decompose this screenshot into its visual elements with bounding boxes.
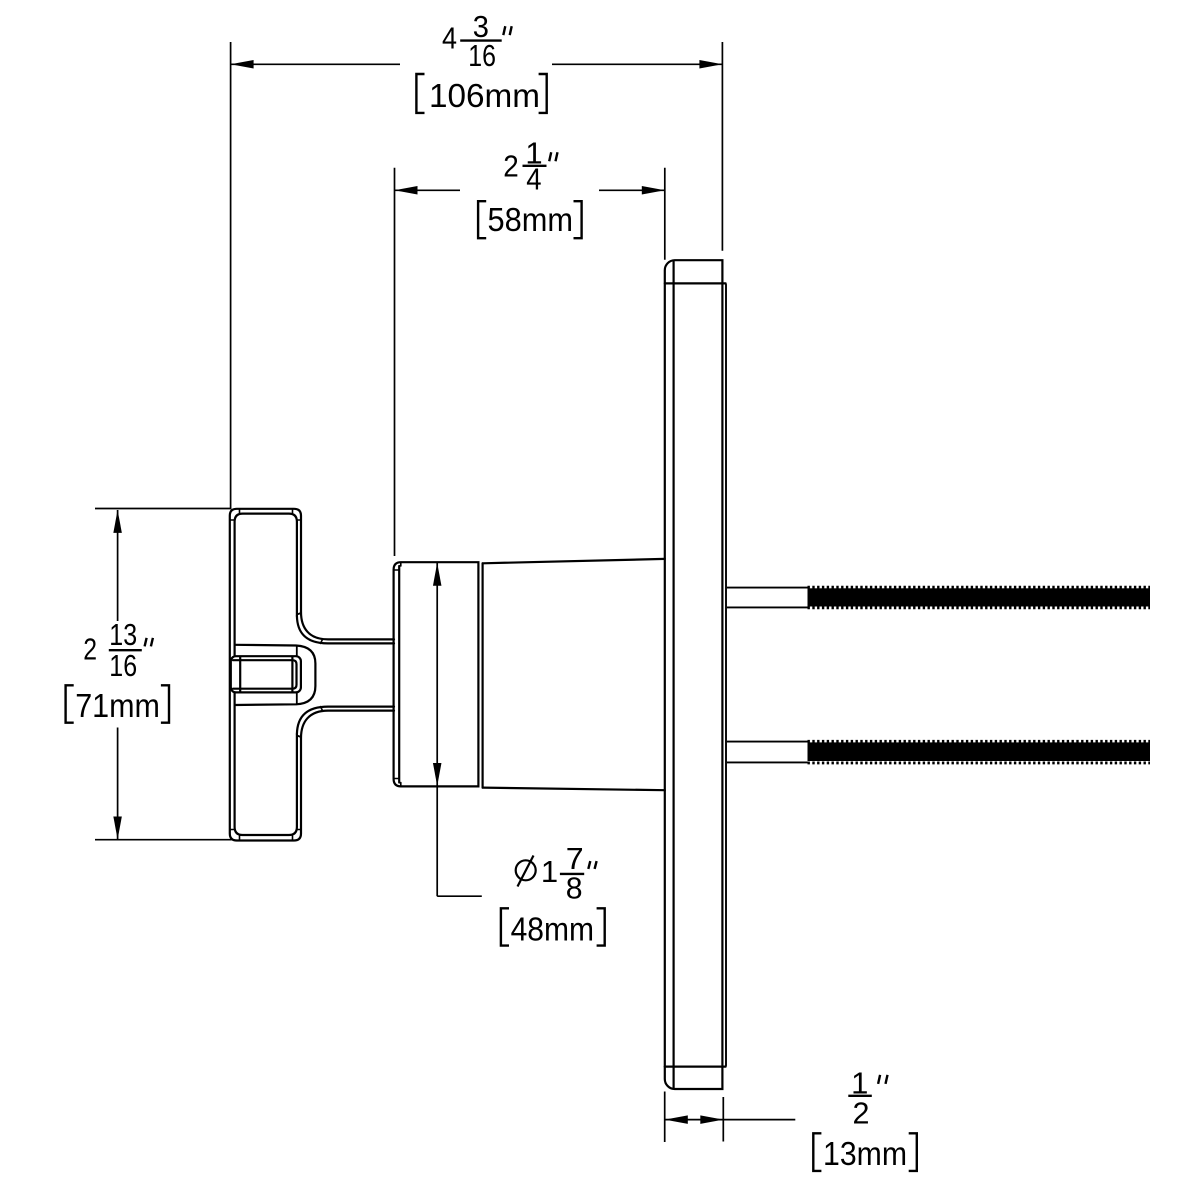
top stud unthreaded shank: [727, 588, 809, 608]
fraction bar 1/2: [848, 1095, 872, 1097]
dia 1-7/8 leader vertical: [436, 786, 438, 896]
arrow dia 1-7/8 top: [433, 563, 442, 586]
bottom stud unthreaded shank: [727, 742, 809, 763]
svg-text:2: 2: [503, 149, 519, 184]
arrow dim 4-3/16 right: [699, 60, 722, 69]
brackets 106mm: [416, 74, 424, 113]
fraction bars and inch marks: [109, 26, 888, 1096]
dia 1-7/8 leader horizontal: [437, 895, 482, 897]
plate silhouette vertical line: [672, 261, 674, 1088]
dim 1/2 line: [665, 1119, 724, 1121]
svg-text:58mm: 58mm: [488, 201, 574, 238]
inch marks 2-1/4: [549, 152, 551, 161]
fraction bar 7/8: [560, 873, 584, 875]
fillet tangent tick lower: [297, 736, 301, 738]
dim 2-1/4 line left segment: [395, 189, 461, 191]
cylinder left edge: [482, 563, 484, 787]
svg-text:106mm: 106mm: [429, 77, 540, 114]
square brackets: [66, 74, 917, 1171]
bottom stud threaded portion: [808, 741, 1151, 763]
plate back edge line: [725, 285, 727, 1066]
arrowheads: [113, 60, 723, 1124]
brackets 13mm: [813, 1133, 821, 1171]
svg-text:71mm: 71mm: [75, 687, 160, 724]
collar corner tangent ticks: [394, 562, 401, 786]
svg-text:2: 2: [83, 632, 97, 667]
dim 2-13/16 bottom extension line: [95, 839, 232, 841]
svg-text:2: 2: [853, 1095, 870, 1130]
hub hole left face line: [239, 657, 241, 691]
arrow dim 2-1/4 right: [642, 186, 665, 195]
dim 4-3/16 left extension line: [230, 42, 232, 508]
svg-text:48mm: 48mm: [511, 911, 594, 948]
DIMENSIONS: [95, 42, 795, 1142]
diameter symbol: [516, 856, 536, 887]
cylinder bottom edge: [483, 788, 665, 791]
stem lower fillet outer: [301, 711, 394, 738]
arrow dim 2-13/16 top: [113, 510, 122, 533]
inch marks 2-13/16: [145, 638, 147, 647]
plate silhouette top line: [665, 282, 726, 284]
dim 4-3/16 line right segment: [552, 63, 722, 65]
OBJECT GROUP: [230, 260, 726, 1089]
svg-text:16: 16: [468, 38, 496, 73]
svg-text:13: 13: [109, 617, 137, 652]
dim 1/2 leader line: [723, 1119, 795, 1121]
svg-text:13mm: 13mm: [823, 1135, 907, 1172]
arrow dim 2-13/16 bottom: [113, 817, 122, 840]
top stud threaded portion: [808, 587, 1151, 608]
fraction bar 1/4: [523, 165, 547, 167]
collar silhouette line: [398, 566, 400, 783]
hub tangent tick lower: [296, 692, 298, 704]
svg-text:4: 4: [442, 21, 457, 56]
hub square hole chamfer line: [233, 660, 297, 689]
arrow dim 2-1/4 left: [395, 186, 418, 195]
dim 2-1/4 line right segment: [599, 189, 665, 191]
stem lower fillet inner: [297, 707, 394, 734]
handle outer outline: [230, 509, 301, 841]
inch marks 4-3/16: [503, 26, 505, 35]
brackets 71mm: [66, 685, 74, 722]
dim 2-1/4 left extension line: [394, 168, 396, 556]
collar outline: [394, 562, 479, 786]
hub tangent tick upper: [296, 646, 298, 657]
fraction bar 13/16: [109, 649, 142, 651]
dim 1/2 left extension line: [664, 1092, 666, 1143]
brackets 58mm: [478, 201, 486, 238]
svg-text:8: 8: [566, 870, 583, 905]
hub boss outline: [235, 645, 316, 705]
hub hole right face line: [291, 657, 293, 691]
arrow dim 1/2 left: [665, 1115, 688, 1124]
plate silhouette bottom line: [665, 1065, 726, 1067]
escutcheon plate outline: [665, 260, 723, 1089]
dim 2-13/16 line bottom segment: [117, 728, 119, 840]
svg-text:16: 16: [109, 648, 137, 683]
handle corner tangent ticks: [230, 509, 301, 841]
dim 2-13/16 line top segment: [117, 510, 119, 621]
dim 2-1/4 right extension line: [664, 168, 666, 260]
cylinder top edge: [483, 559, 665, 563]
arrow dim 4-3/16 left: [231, 60, 254, 69]
arrow dim 1/2 right: [700, 1115, 723, 1124]
hub square hole outer: [231, 656, 301, 692]
dim 4-3/16 right extension line: [721, 42, 723, 251]
fillet tangent tick upper: [297, 613, 301, 615]
stem upper fillet outer: [301, 612, 394, 639]
inch marks 1-7/8: [588, 861, 590, 869]
svg-text:1: 1: [541, 854, 558, 889]
handle inner offset line: [235, 514, 297, 835]
brackets 48mm: [501, 908, 509, 945]
stem tangent ticks near collar: [321, 639, 323, 643]
stem upper fillet inner: [297, 616, 394, 643]
dim 1/2 right extension line: [722, 1097, 724, 1142]
dim 2-13/16 top extension line: [95, 508, 232, 510]
dim 4-3/16 line left segment: [231, 63, 400, 65]
fraction bar 3/16: [460, 39, 502, 41]
arrow dia 1-7/8 bottom: [433, 763, 442, 786]
inch marks 1/2: [878, 1075, 880, 1084]
dia 1-7/8 vertical arrow line: [436, 563, 438, 786]
